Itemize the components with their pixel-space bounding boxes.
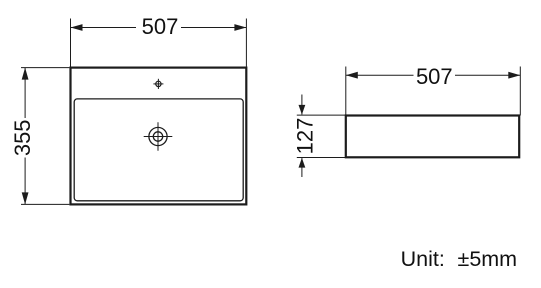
side-view height dimension arrow top (points down) xyxy=(299,105,306,115)
top-view height extension line top xyxy=(21,67,69,69)
svg-text:355: 355 xyxy=(10,119,35,156)
side view body outline xyxy=(346,116,519,158)
top-view height dimension line upper segment xyxy=(24,68,26,118)
top-view height dimension line lower segment xyxy=(24,158,26,205)
drain crosshair horizontal xyxy=(144,136,173,138)
basin bowl inner edge xyxy=(74,99,243,201)
top-view height dimension arrow bottom xyxy=(22,192,29,204)
top-view width extension line left xyxy=(70,19,72,67)
top-view height dimension arrow top xyxy=(22,68,29,80)
faucet hole crosshair vertical xyxy=(157,79,159,89)
svg-text:Unit:±5mm: Unit:±5mm xyxy=(401,247,517,271)
side-view height extension line top xyxy=(297,114,345,116)
drain outer circle xyxy=(149,127,167,145)
top-view width dimension arrow right xyxy=(234,24,246,31)
side-view width extension line left xyxy=(345,67,347,116)
side-view width dimension arrow right xyxy=(508,72,520,79)
drain inner circle xyxy=(153,132,162,141)
side-view width dimension line left segment xyxy=(346,74,414,76)
top-view width dimension line right segment xyxy=(181,27,246,29)
side-view width dimension line right segment xyxy=(455,74,520,76)
side-view height dimension tail bottom xyxy=(301,158,303,177)
side-view width dimension arrow left xyxy=(346,72,358,79)
side-view height extension line bottom xyxy=(297,157,345,159)
top-view width dimension arrow left xyxy=(71,24,83,31)
side-view height dimension tail top xyxy=(301,95,303,115)
svg-text:507: 507 xyxy=(142,14,179,39)
svg-text:507: 507 xyxy=(416,64,453,89)
drain crosshair vertical xyxy=(157,122,159,151)
faucet hole crosshair horizontal xyxy=(153,83,163,85)
faucet hole circle xyxy=(156,81,161,86)
top-view height extension line bottom xyxy=(21,203,69,205)
side-view width extension line right xyxy=(519,67,521,116)
top-view width extension line right xyxy=(245,19,247,67)
basin outer rim (top view) xyxy=(71,68,247,205)
svg-text:127: 127 xyxy=(292,118,317,155)
top-view width dimension line left segment xyxy=(71,27,137,29)
side-view height dimension arrow bottom (points up) xyxy=(299,158,306,168)
